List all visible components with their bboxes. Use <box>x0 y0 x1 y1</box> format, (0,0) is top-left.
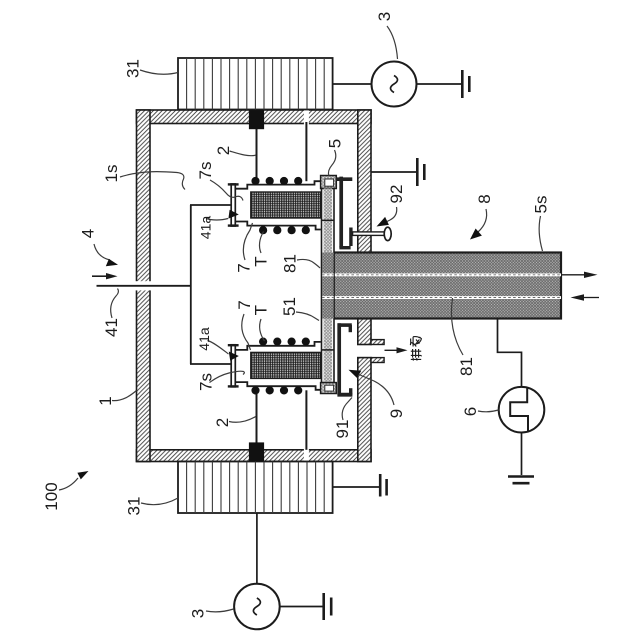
electrode holder outline (bottom assembly) <box>235 342 320 350</box>
coil turn dots (top assembly, upper row) <box>251 177 259 185</box>
leader for 4 arrow <box>94 244 110 260</box>
coil 31 top <box>178 58 333 110</box>
svg-text:100: 100 <box>42 482 61 510</box>
svg-text:T: T <box>252 256 271 266</box>
svg-text:6: 6 <box>461 407 480 416</box>
leader for 31 (top) <box>140 70 178 74</box>
leader for 3 (top) <box>387 26 398 59</box>
exhaust port flange upper 91 <box>371 340 384 345</box>
svg-text:81: 81 <box>280 254 299 273</box>
chamber wall : right lower segment <box>358 358 371 462</box>
support rod (bottom, x=306) <box>305 390 307 450</box>
svg-text:7s: 7s <box>196 162 215 180</box>
plate 51 main shaft <box>322 189 335 383</box>
svg-text:7: 7 <box>235 263 254 272</box>
leader for 41a (bottom) <box>208 341 229 355</box>
gas in arrow (bottom right) <box>571 294 585 300</box>
svg-text:41: 41 <box>102 318 121 337</box>
svg-text:31: 31 <box>125 497 144 516</box>
leader for 91 <box>342 398 352 421</box>
svg-text:5: 5 <box>326 139 345 148</box>
target T body (bottom) <box>251 352 321 378</box>
ground (right of top AC source) <box>461 70 464 98</box>
svg-text:41a: 41a <box>196 327 212 351</box>
inner tube 81 upper dashed channel <box>322 273 561 276</box>
leader for 5s <box>539 216 542 251</box>
svg-text:81: 81 <box>457 357 476 376</box>
svg-text:4: 4 <box>79 229 98 238</box>
bias source 6 <box>499 387 545 433</box>
leader for 7s (bottom) <box>210 371 245 382</box>
arrowhead 41a (bottom) <box>229 352 239 361</box>
leader for T (bottom) <box>260 319 265 341</box>
outer tube 8 body <box>334 253 561 319</box>
svg-text:9: 9 <box>387 409 406 418</box>
leader for 8 with arrow <box>478 209 487 232</box>
leader for 81 (left) <box>297 259 320 268</box>
svg-text:5s: 5s <box>532 196 551 214</box>
chamber wall : left <box>137 110 151 462</box>
feedthrough block (top wall) <box>249 110 264 129</box>
target T body (top) <box>251 192 321 218</box>
bracket above tube (C-shape on plate 5) <box>336 177 352 181</box>
svg-text:41a: 41a <box>198 216 214 240</box>
gas inlet elbow 92 <box>349 228 352 247</box>
chamber wall 1 : top <box>137 110 372 124</box>
arrowhead 100 <box>77 471 88 479</box>
wire bottom AC source to ground <box>280 606 323 608</box>
leader for 51 <box>296 312 319 321</box>
gas-in small arrow <box>92 275 107 277</box>
bracket below tube (C-shape, bottom) <box>338 323 352 327</box>
ground (chamber right wall) <box>416 158 419 186</box>
svg-text:3: 3 <box>189 609 208 618</box>
rod 2 (bottom) <box>256 387 258 447</box>
svg-text:8: 8 <box>475 194 494 203</box>
svg-text:2: 2 <box>213 418 232 427</box>
feedthrough block (bottom wall) <box>249 442 264 461</box>
valve ellipse <box>384 227 391 240</box>
exhaust arrow <box>385 349 399 351</box>
wall gap for rod (top) <box>304 109 309 125</box>
dashed channels crossing plate <box>322 273 333 276</box>
wire AC source to ground <box>417 83 462 85</box>
ground (right of bottom AC source) <box>322 593 325 620</box>
ground (below device 6) <box>508 475 534 478</box>
svg-text:1s: 1s <box>102 165 121 183</box>
chamber wall : bottom <box>137 450 372 462</box>
wire device 6 to ground <box>521 433 523 476</box>
svg-text:91: 91 <box>333 420 352 439</box>
leader for 92 <box>381 207 397 225</box>
leader for 41 <box>111 289 119 319</box>
feed line vertical riser <box>190 205 192 364</box>
arrowhead 8 <box>470 229 482 240</box>
coil turn dots (bottom assembly, upper row) <box>259 338 267 346</box>
feed branch to top flange <box>190 204 231 206</box>
plate 5 top cap <box>321 176 337 189</box>
feed line 41 horizontal <box>97 285 191 287</box>
leader for 7 (bottom) <box>242 314 251 350</box>
svg-text:51: 51 <box>280 297 299 316</box>
flange 7s (top) <box>231 184 235 226</box>
wall gap for feed line (left) <box>135 281 151 290</box>
leader for 1 <box>112 391 137 401</box>
rod 2 (top) <box>256 128 258 185</box>
svg-text:T: T <box>251 305 270 315</box>
electrode holder outline (top assembly) <box>235 181 320 189</box>
leader for T (top) <box>259 232 263 254</box>
leader for 3 (bottom) <box>206 609 234 612</box>
leader for 31 (bottom) <box>141 498 178 505</box>
wire coil31top to AC source <box>333 83 372 85</box>
coil turn dots (bottom assembly, lower row) <box>251 386 259 394</box>
leader for 100 arrow <box>59 478 78 490</box>
flange 7s (bottom) <box>231 345 235 387</box>
wire coil31bottom to ground <box>333 486 379 488</box>
coil turn dots (top assembly, lower row) <box>259 226 267 234</box>
gas out arrow (top right) <box>561 274 586 276</box>
plate section inside tube region (darker) <box>322 253 333 319</box>
svg-text:7s: 7s <box>197 373 216 391</box>
svg-text:92: 92 <box>387 185 406 204</box>
AC source 3 (top) <box>372 62 417 107</box>
feed branch to bottom flange <box>190 363 231 365</box>
arrowhead 9 <box>349 370 362 378</box>
ground (right of bottom coil) <box>379 474 382 497</box>
leader for 7 (top) <box>243 223 252 260</box>
svg-text:2: 2 <box>214 146 233 155</box>
leader for 9 with arrow <box>359 375 394 406</box>
wire tube to device 6 <box>498 319 522 388</box>
arrowhead 92 <box>377 217 389 227</box>
support rod (top, x=306) <box>305 122 307 181</box>
exhaust text 排気 (hand-drawn glyphs, rotated) <box>410 337 421 361</box>
leader for 6 <box>478 410 499 412</box>
leader for 81 (right) <box>451 298 463 355</box>
leader for 5 <box>328 150 335 176</box>
leader for 2 (bottom) <box>229 417 256 423</box>
wire coil31bottom to AC source (bottom) <box>256 513 258 584</box>
exhaust port flange lower <box>371 358 384 363</box>
svg-text:1: 1 <box>96 396 115 405</box>
coil 31 bottom <box>178 462 333 514</box>
chamber wall : right segment between tube and exhaust port <box>358 319 371 345</box>
plate bottom cap <box>321 383 337 394</box>
wall gap for rod (bottom) <box>304 449 309 463</box>
inner tube 81 lower dashed channel <box>322 296 561 299</box>
chamber wall : right upper segment <box>358 110 371 253</box>
arrowhead 41a (top) <box>228 210 238 219</box>
leader for 7s (top) <box>210 180 243 201</box>
arrowhead 4 <box>106 259 118 266</box>
svg-text:3: 3 <box>375 12 394 21</box>
leader for 41a (top) <box>206 219 228 221</box>
wire right wall to ground <box>371 171 416 173</box>
leader for 2 (top) <box>230 151 256 156</box>
AC source 3 (bottom) <box>234 584 280 630</box>
leader for 1s <box>120 172 185 190</box>
gas inlet pipe through wall <box>353 232 390 236</box>
svg-text:31: 31 <box>124 59 143 78</box>
